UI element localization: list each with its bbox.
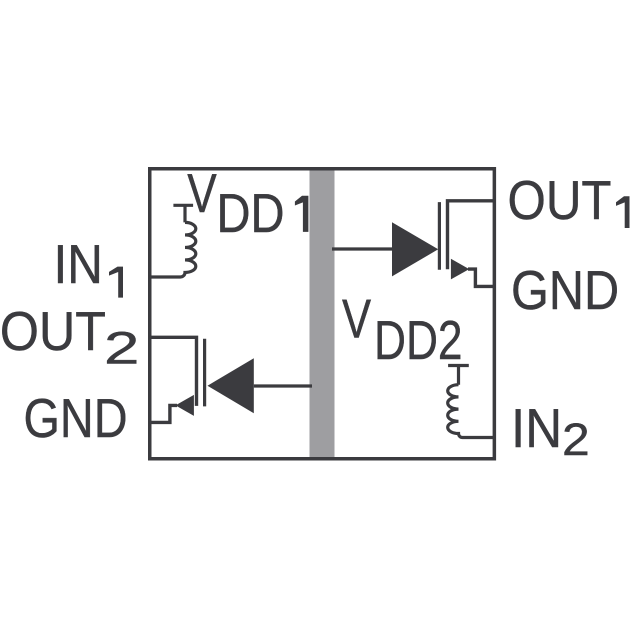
svg-text:2: 2 (104, 322, 139, 373)
buffer amplifier channel 1 (392, 222, 438, 276)
svg-text:2: 2 (562, 414, 590, 465)
output transistor channel 1 and wire to OUT1 pin (448, 201, 495, 269)
svg-text:OUT: OUT (0, 300, 106, 362)
gate plate channel 2 (203, 339, 206, 407)
svg-text:DD2: DD2 (374, 309, 463, 371)
wire to GND2 pin (150, 405, 177, 422)
IC package outline (150, 169, 495, 459)
svg-text:GND: GND (24, 387, 128, 449)
svg-text:V: V (187, 162, 217, 224)
svg-text:V: V (342, 288, 371, 350)
svg-text:IN: IN (54, 233, 103, 295)
svg-text:GND: GND (511, 259, 619, 321)
gate plate channel 1 (438, 202, 441, 270)
svg-text:IN: IN (511, 397, 562, 459)
inductor L2 (VDD2 coil) with wire to IN2 pin (448, 366, 495, 438)
buffer amplifier channel 2 (208, 358, 254, 413)
output transistor channel 2 and wire to OUT2 pin (150, 337, 197, 406)
emitter arrow channel 1 (451, 259, 469, 280)
wire channel2 from barrier to buffer (254, 384, 312, 387)
svg-text:OUT: OUT (508, 169, 612, 231)
emitter arrow channel 2 (176, 395, 194, 416)
wire to GND1 pin (468, 269, 494, 286)
isolation barrier (310, 170, 335, 459)
inductor L1 (VDD1 coil) with wire to IN1 pin (150, 205, 196, 277)
svg-text:DD: DD (217, 182, 285, 244)
wire channel1 from barrier to buffer (332, 247, 392, 250)
